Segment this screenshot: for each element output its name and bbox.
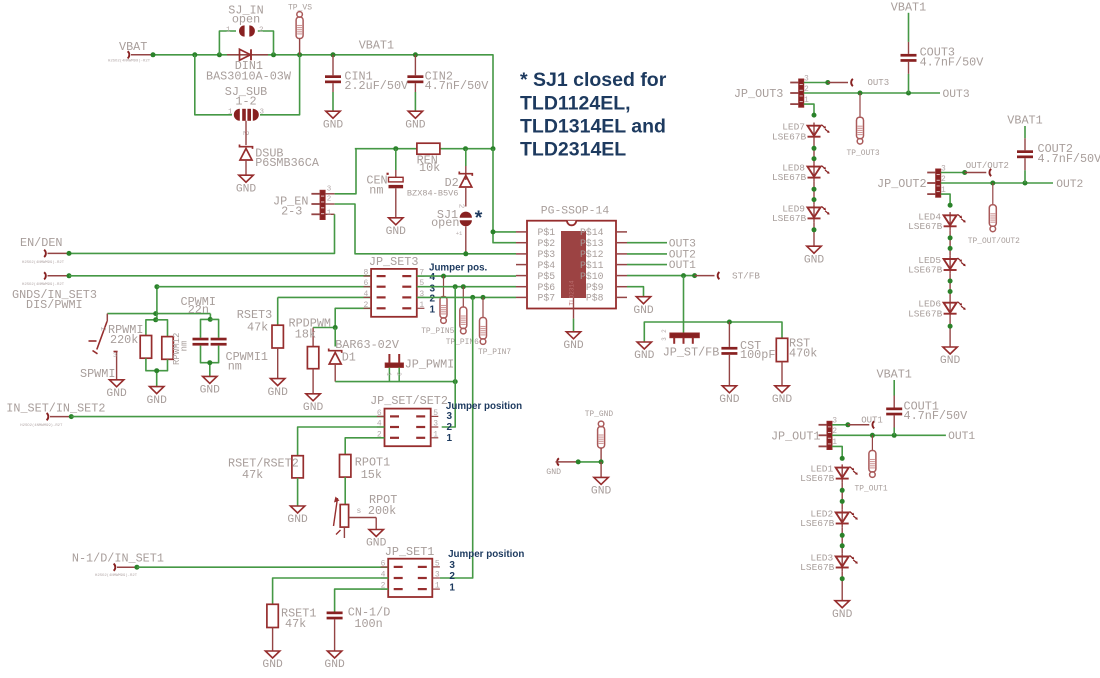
svg-text:GND: GND xyxy=(546,468,561,477)
svg-text:Jumper position: Jumper position xyxy=(446,401,522,412)
svg-text:H2SO2(4NMWM99)-R2T: H2SO2(4NMWM99)-R2T xyxy=(22,282,65,287)
wire EN rail xyxy=(355,148,417,150)
ground LED chain xyxy=(804,246,825,266)
wire JP_SET3 pin7 to P$5 xyxy=(417,275,516,277)
resistor RSET1 47k xyxy=(267,604,317,651)
svg-text:P$10: P$10 xyxy=(580,271,604,282)
svg-text:P$7: P$7 xyxy=(538,293,556,304)
svg-text:P$9: P$9 xyxy=(586,282,604,293)
wire JP_SET1 pin2 to CN-1/D xyxy=(335,589,389,611)
junction D1 node xyxy=(333,325,338,330)
wire RPDPWM top to node xyxy=(313,327,335,329)
net flag ST/FB xyxy=(695,271,761,282)
svg-text:3: 3 xyxy=(449,560,455,571)
svg-text:TP_PIN5: TP_PIN5 xyxy=(421,327,454,336)
junction PWM rail RPWMI xyxy=(153,311,158,316)
ground LED chain xyxy=(940,347,961,367)
svg-text:2: 2 xyxy=(395,372,402,376)
solder jumper SJ1 open xyxy=(431,208,472,237)
wire P$12 OUT2 xyxy=(627,253,667,255)
ground JP_ST/FB xyxy=(634,342,655,362)
junction vertical P$7 xyxy=(470,295,475,300)
svg-text:1: 1 xyxy=(419,301,424,310)
svg-text:P$4: P$4 xyxy=(538,260,556,271)
annotation SJ1 note xyxy=(520,69,667,161)
svg-text:P$11: P$11 xyxy=(580,260,604,271)
net flag OUT/OUT2 xyxy=(965,161,1009,176)
svg-text:H2SO2(4NMWM99)-R2T: H2SO2(4NMWM99)-R2T xyxy=(95,573,138,578)
junction CPWMI bottom xyxy=(207,360,212,365)
ground RSET/RSET2 xyxy=(287,506,308,526)
svg-text:3: 3 xyxy=(433,420,438,429)
svg-text:SPWMI: SPWMI xyxy=(80,367,115,381)
wire RSET3 to JP_SET3 pin4 xyxy=(278,296,371,298)
wire JP_OUT2 pin3 xyxy=(941,172,965,174)
svg-text:LSE67B: LSE67B xyxy=(908,221,943,232)
svg-text:P6SMB36CA: P6SMB36CA xyxy=(255,156,320,170)
svg-text:OUT1: OUT1 xyxy=(669,260,696,272)
test point TP_PIN7 xyxy=(478,297,511,356)
ground CIN1 xyxy=(323,111,344,131)
junction TP_OUT3 xyxy=(858,91,863,96)
test point TP_PIN6 xyxy=(446,287,479,347)
svg-text:GND: GND xyxy=(323,119,344,131)
svg-text:100pF: 100pF xyxy=(740,348,775,362)
junction VBAT1 riser xyxy=(491,146,496,151)
ground RSET1 xyxy=(262,651,283,671)
svg-text:LSE67B: LSE67B xyxy=(772,213,807,224)
LED LED6 LSE67B xyxy=(908,299,966,320)
svg-text:6: 6 xyxy=(363,279,368,288)
junction LED chain top xyxy=(812,113,817,118)
svg-text:TLD2314EL: TLD2314EL xyxy=(520,139,626,161)
pin header JP_OUT1 xyxy=(771,417,837,450)
svg-text:P$8: P$8 xyxy=(586,293,604,304)
wire DSUB to GND xyxy=(245,160,247,175)
wire ST/FB riser and rail xyxy=(683,276,685,333)
solder jumper SJ_IN xyxy=(226,3,264,36)
junction LED chain xyxy=(812,187,817,192)
wire IN_SET to JP_SET/SET2 xyxy=(71,416,384,418)
junction VBAT flag xyxy=(151,52,156,57)
wire JP_OUT3 pin2 OUT3 xyxy=(804,92,940,94)
svg-text:2: 2 xyxy=(327,196,332,204)
svg-text:JP_SET1: JP_SET1 xyxy=(385,545,435,559)
svg-text:H2SO2(4NMWM99)-R2T: H2SO2(4NMWM99)-R2T xyxy=(22,260,65,265)
wire SJ_IN bracket xyxy=(219,31,236,55)
svg-text:VBAT1: VBAT1 xyxy=(1007,114,1042,128)
diode DSUB P6SMB36CA xyxy=(240,145,320,170)
wire SJ1 to EN net xyxy=(465,226,467,254)
svg-text:47k: 47k xyxy=(242,468,263,482)
wire P$10 ST/FB xyxy=(627,275,695,277)
junction LED chain xyxy=(840,543,845,548)
svg-text:GND: GND xyxy=(324,659,345,671)
net flag GND xyxy=(546,458,578,477)
svg-text:OUT2: OUT2 xyxy=(1056,179,1083,191)
wire LED link xyxy=(949,274,951,300)
wire riser to JP_SET3 pin6 xyxy=(157,286,371,288)
svg-text:GND: GND xyxy=(268,387,289,399)
svg-text:LSE67B: LSE67B xyxy=(800,473,835,484)
junction CIN1 xyxy=(331,52,336,57)
wire JP_SET/SET2 pin4 to RSET/RSET2 xyxy=(298,427,385,456)
wire P$9 to GND xyxy=(627,287,644,297)
LED LED7 LSE67B xyxy=(772,122,830,143)
wire vertical P$6 to JP_SET/SET2 xyxy=(442,287,456,427)
svg-text:GND: GND xyxy=(634,350,655,362)
svg-text:Jumper position: Jumper position xyxy=(448,549,524,560)
svg-text:H2SO2(4NMWM99)-R2T: H2SO2(4NMWM99)-R2T xyxy=(20,423,63,428)
wire JP_OUT2 pin1 to LED chain xyxy=(941,194,950,205)
svg-text:47k: 47k xyxy=(285,617,306,631)
svg-text:GND: GND xyxy=(940,355,961,367)
svg-text:5: 5 xyxy=(433,409,438,418)
wire JP_OUT1 pin2 OUT1 xyxy=(832,434,946,436)
svg-text:BAS3010A-03W: BAS3010A-03W xyxy=(206,69,292,83)
svg-text:GND: GND xyxy=(287,514,308,526)
svg-text:2: 2 xyxy=(430,293,436,304)
wire JP_EN pin3 to rail xyxy=(335,149,356,194)
svg-text:2.2uF/50V: 2.2uF/50V xyxy=(344,79,409,93)
wire JP_SET3 pin2 branch xyxy=(335,308,371,327)
svg-text:Jumper pos.: Jumper pos. xyxy=(429,262,488,273)
svg-text:JP_PWMI: JP_PWMI xyxy=(405,358,455,372)
junction N-1/D flag xyxy=(134,565,139,570)
junction TP_VS xyxy=(297,52,302,57)
svg-text:GND: GND xyxy=(106,388,127,400)
svg-text:2: 2 xyxy=(449,571,455,582)
diode D1 BAR63-02V xyxy=(329,328,400,382)
svg-text:nm: nm xyxy=(228,359,242,373)
svg-text:1: 1 xyxy=(226,27,231,35)
svg-text:4: 4 xyxy=(363,290,368,299)
svg-text:470k: 470k xyxy=(789,347,817,361)
capacitor CIN2 4.7nF/50V xyxy=(407,55,489,111)
wire RPWMI bracket to GND xyxy=(156,371,158,387)
wire JP_EN pin2 to EN xyxy=(335,204,516,254)
wire JP_OUT1 pin3 xyxy=(832,424,848,426)
junction SJ_SUB riser xyxy=(192,52,197,57)
junction LED chain xyxy=(948,246,953,251)
svg-text:47k: 47k xyxy=(247,321,268,335)
junction GNDS flag xyxy=(67,273,72,278)
junction LED chain bottom xyxy=(948,324,953,329)
capacitor CEN nm xyxy=(366,149,403,217)
svg-text:LSE67B: LSE67B xyxy=(908,265,943,276)
wire P$13 OUT3 xyxy=(627,242,667,244)
svg-text:TP_OUT3: TP_OUT3 xyxy=(847,149,880,158)
capacitor CIN1 2.2uF/50V xyxy=(325,55,409,111)
svg-text:open: open xyxy=(431,216,459,230)
junction riser P$6 row xyxy=(154,284,159,289)
svg-text:GND: GND xyxy=(236,183,257,195)
wire CPWMI riser xyxy=(156,287,158,320)
ground RSET3 xyxy=(268,379,289,399)
LED LED9 LSE67B xyxy=(772,203,830,224)
op-amp U1 PG-SSOP-14 xyxy=(516,206,627,309)
ground LED chain xyxy=(832,601,853,621)
net flag OUT3 xyxy=(828,78,889,88)
svg-text:* SJ1 closed for: * SJ1 closed for xyxy=(520,69,667,91)
junction IN_SET flag xyxy=(69,414,74,419)
pin header JP_OUT3 xyxy=(734,74,809,107)
svg-text:22n: 22n xyxy=(188,303,209,317)
wire LED link xyxy=(949,230,951,256)
junction RPWMI bracket xyxy=(153,317,158,322)
junction CIN2 xyxy=(413,52,418,57)
svg-text:P$6: P$6 xyxy=(538,282,556,293)
junction SJ_IN left xyxy=(217,52,222,57)
junction LED chain top xyxy=(840,456,845,461)
svg-text:VBAT1: VBAT1 xyxy=(359,39,394,53)
junction ST/FB riser xyxy=(681,273,686,278)
junction LED chain xyxy=(812,146,817,151)
svg-text:3: 3 xyxy=(260,109,265,117)
svg-text:GND: GND xyxy=(591,486,612,498)
svg-text:220k: 220k xyxy=(110,333,138,347)
net flag GNDS/IN_SET3 DIS/PWMI xyxy=(12,272,97,312)
diode DIN1 BAS3010A-03W xyxy=(206,49,292,83)
junction vertical P$6 xyxy=(453,284,458,289)
svg-text:OUT1: OUT1 xyxy=(948,431,975,443)
net flag EN/DEN xyxy=(20,236,69,265)
net flag N-1/D/IN_SET1 xyxy=(72,551,164,578)
svg-text:1: 1 xyxy=(430,304,436,315)
junction OUT1 flag xyxy=(845,422,850,427)
wire JP_SET/SET2 pin2 to RPOT1 xyxy=(345,438,384,455)
junction COUT3 xyxy=(906,91,911,96)
junction LED chain bottom xyxy=(812,227,817,232)
svg-text:JP_ST/FB: JP_ST/FB xyxy=(663,346,720,360)
capacitor COUT1 4.7nF/50V xyxy=(886,380,968,435)
junction ST/FB flag xyxy=(692,273,697,278)
svg-text:1: 1 xyxy=(449,582,455,593)
ground RST xyxy=(772,386,793,406)
svg-text:GND: GND xyxy=(303,402,324,414)
svg-text:IN_SET/IN_SET2: IN_SET/IN_SET2 xyxy=(6,401,105,415)
svg-text:VBAT: VBAT xyxy=(119,40,147,54)
svg-text:1: 1 xyxy=(433,430,438,439)
svg-text:1: 1 xyxy=(228,109,233,117)
svg-text:TP_PIN7: TP_PIN7 xyxy=(478,348,511,357)
svg-text:BZX84-B5V6: BZX84-B5V6 xyxy=(407,188,459,198)
svg-text:TLD1124EL,: TLD1124EL, xyxy=(520,93,631,115)
svg-text:1-2: 1-2 xyxy=(235,95,256,109)
svg-text:1: 1 xyxy=(327,210,332,218)
svg-text:LSE67B: LSE67B xyxy=(800,518,835,529)
junction LED chain bottom xyxy=(840,576,845,581)
svg-text:3: 3 xyxy=(327,185,332,193)
junction CST xyxy=(727,320,732,325)
wire JP_SET3 pin3 to P$7 xyxy=(417,296,516,298)
junction P$1 xyxy=(491,229,496,234)
svg-text:TLD1314EL and: TLD1314EL and xyxy=(520,116,666,138)
junction OUT3 flag xyxy=(825,80,830,85)
svg-text:VBAT1: VBAT1 xyxy=(891,0,926,14)
svg-text:DIS/PWMI: DIS/PWMI xyxy=(26,298,83,312)
svg-text:P$14: P$14 xyxy=(580,227,604,238)
svg-text:GND: GND xyxy=(772,394,793,406)
LED LED1 LSE67B xyxy=(800,464,858,485)
svg-text:2: 2 xyxy=(661,329,668,333)
ground TP_GND xyxy=(591,477,612,497)
net flag IN_SET/IN_SET2 xyxy=(6,401,105,428)
wire PWM rail top xyxy=(107,313,210,315)
svg-text:1: 1 xyxy=(435,582,440,591)
svg-text:JP_OUT2: JP_OUT2 xyxy=(877,177,927,191)
wire JP_OUT3 pin3 xyxy=(804,82,828,84)
svg-text:RSET/RSET2: RSET/RSET2 xyxy=(228,456,299,470)
junction COUT2 xyxy=(1023,181,1028,186)
svg-text:PG-SSOP-14: PG-SSOP-14 xyxy=(541,206,610,218)
junction LED chain xyxy=(840,488,845,493)
junction LED chain xyxy=(812,156,817,161)
junction TP_OUT/OUT2 xyxy=(990,181,995,186)
junction LED chain xyxy=(812,197,817,202)
svg-text:4.7nF/50V: 4.7nF/50V xyxy=(920,56,985,70)
annotation Jumper pos. xyxy=(429,262,488,315)
pin header JP_SET/SET2 xyxy=(370,394,448,446)
pin header JP_SET3 xyxy=(363,255,424,317)
junction LED chain xyxy=(948,235,953,240)
junction D2 xyxy=(463,146,468,151)
svg-text:6: 6 xyxy=(377,409,382,418)
ground CST xyxy=(719,386,740,406)
LED LED8 LSE67B xyxy=(772,163,830,184)
svg-text:3: 3 xyxy=(113,352,117,359)
svg-text:nm: nm xyxy=(369,183,383,197)
capacitor COUT3 4.7nF/50V xyxy=(901,13,985,93)
annotation Jumper position SET1 xyxy=(448,549,524,593)
wire JP_EN pin1 to EN/DEN flag xyxy=(69,214,335,253)
svg-text:EN/DEN: EN/DEN xyxy=(20,236,62,250)
junction COUT1 xyxy=(892,433,897,438)
diode D2 BZX84-B5V6 xyxy=(407,149,472,209)
junction CPWMI bracket xyxy=(208,317,213,322)
svg-text:18k: 18k xyxy=(295,328,316,342)
LED LED2 LSE67B xyxy=(800,509,858,530)
resistor RSET/RSET2 47k xyxy=(228,456,303,506)
capacitor CN-1/D 100n xyxy=(327,605,391,651)
capacitor COUT2 4.7nF/50V xyxy=(1017,126,1100,183)
wire SJ_SUB to DSUB xyxy=(245,121,247,145)
svg-text:2: 2 xyxy=(447,422,453,433)
wire JP_OUT3 pin1 to LED chain xyxy=(804,104,814,115)
wire SJ_SUB branch xyxy=(195,55,232,115)
junction TP_GND xyxy=(599,459,604,464)
svg-text:ST/FB: ST/FB xyxy=(732,271,760,282)
capacitor CPWMI 22n xyxy=(181,295,216,363)
wire VBAT1 riser to P$1 P$2 xyxy=(493,149,516,243)
svg-text:GND: GND xyxy=(200,385,221,397)
svg-text:3: 3 xyxy=(435,571,440,580)
svg-text:100n: 100n xyxy=(354,617,382,631)
junction TP_PIN7 xyxy=(481,295,486,300)
junction SJ1 EN xyxy=(463,251,468,256)
svg-text:JP_OUT1: JP_OUT1 xyxy=(771,430,821,444)
junction TP_PIN6 xyxy=(461,284,466,289)
ground CN-1/D xyxy=(324,651,345,671)
wire vertical P$7 to JP_SET1 xyxy=(440,297,473,578)
svg-text:4.7nF/50V: 4.7nF/50V xyxy=(1038,152,1100,166)
svg-text:10k: 10k xyxy=(419,161,440,175)
svg-text:OUT3: OUT3 xyxy=(669,238,696,250)
svg-text:OUT/OUT2: OUT/OUT2 xyxy=(966,161,1009,171)
svg-text:1: 1 xyxy=(385,372,392,376)
wire JP_SET3 pin5 to P$6 xyxy=(417,286,516,288)
junction RPWMI bottom xyxy=(154,368,159,373)
svg-text:1: 1 xyxy=(447,433,453,444)
svg-text:P$3: P$3 xyxy=(538,249,556,260)
svg-text:4: 4 xyxy=(430,272,436,283)
LED LED3 LSE67B xyxy=(800,553,858,574)
solder jumper SJ_SUB 1-2 xyxy=(225,85,267,136)
svg-text:4.7nF/50V: 4.7nF/50V xyxy=(904,409,969,423)
svg-text:OUT3: OUT3 xyxy=(868,78,890,88)
wire TP_GND to ground xyxy=(600,462,602,478)
svg-text:JP_SET/SET2: JP_SET/SET2 xyxy=(370,394,448,408)
svg-text:5: 5 xyxy=(435,559,440,568)
svg-text:2-3: 2-3 xyxy=(281,204,302,218)
svg-text:TP_OUT/OUT2: TP_OUT/OUT2 xyxy=(968,237,1020,246)
svg-text:N-1/D/IN_SET1: N-1/D/IN_SET1 xyxy=(72,551,164,565)
net flag OUT1 xyxy=(848,415,883,428)
svg-text:JP_SET3: JP_SET3 xyxy=(369,255,419,269)
junction SJ_IN right xyxy=(271,52,276,57)
svg-text:H2SO2(4NMWM99)-R2T: H2SO2(4NMWM99)-R2T xyxy=(108,59,151,64)
svg-text:15k: 15k xyxy=(361,468,382,482)
wire LED link xyxy=(813,181,815,204)
svg-text:JP_OUT3: JP_OUT3 xyxy=(734,87,784,101)
pin header JP_PWMI xyxy=(385,354,454,382)
ground RPDPWM xyxy=(303,394,324,414)
svg-text:TP_PIN6: TP_PIN6 xyxy=(446,338,479,347)
resistor RST 470k xyxy=(776,337,817,386)
wire TP_GND xyxy=(578,461,601,463)
svg-text:2: 2 xyxy=(98,327,106,331)
svg-text:GND: GND xyxy=(366,538,387,550)
junction LED chain top xyxy=(948,203,953,208)
resistor RPDPWM 18k xyxy=(289,317,331,394)
wire CPWMI bracket entry xyxy=(209,314,211,320)
test point TP_VS xyxy=(288,4,312,55)
svg-text:4.7nF/50V: 4.7nF/50V xyxy=(425,79,490,93)
resistor RPOT1 15k xyxy=(340,455,391,505)
svg-text:GND: GND xyxy=(563,340,584,352)
ground RPOT xyxy=(366,530,387,550)
test point TP_OUT/OUT2 xyxy=(968,183,1020,246)
wire JP_OUT2 pin2 OUT2 xyxy=(941,182,1053,184)
svg-text:GND: GND xyxy=(832,609,853,621)
svg-text:GND: GND xyxy=(262,659,283,671)
svg-text:OUT1: OUT1 xyxy=(861,415,883,425)
switch SPWMI xyxy=(80,314,118,381)
ground RPWMI xyxy=(147,387,168,407)
svg-text:P$12: P$12 xyxy=(580,249,604,260)
wire LED link xyxy=(841,527,843,553)
svg-text:8: 8 xyxy=(363,269,368,278)
wire JP_OUT1 pin1 to LED chain xyxy=(832,446,842,457)
junction CEN xyxy=(393,146,398,151)
pin header JP_OUT2 xyxy=(877,164,946,197)
resistor RPWM12 nm xyxy=(156,320,190,371)
ground SPWMI xyxy=(106,380,127,400)
test point TP_OUT3 xyxy=(847,93,880,158)
wire GNDS flag to JP_SET3 pin8 xyxy=(69,275,371,277)
pin header JP_EN 2-3 xyxy=(273,185,335,219)
svg-text:3: 3 xyxy=(447,411,453,422)
